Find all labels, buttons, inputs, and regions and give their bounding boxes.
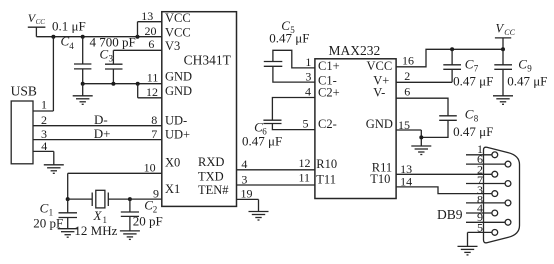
svg-text:6: 6 bbox=[404, 84, 410, 98]
svg-text:C: C bbox=[61, 34, 70, 49]
capacitor C4 0.1uF bbox=[52, 18, 91, 83]
svg-text:T10: T10 bbox=[370, 172, 390, 186]
wire X1 pin9 bbox=[130, 198, 162, 200]
wire TEN# pin19 to ground bbox=[237, 199, 259, 211]
svg-text:UD+: UD+ bbox=[165, 127, 190, 141]
DB9 pin circles right column bbox=[505, 161, 511, 225]
wire TXD pin3 to MAX232 pin11 bbox=[237, 184, 315, 186]
svg-text:4: 4 bbox=[41, 139, 47, 153]
svg-text:1: 1 bbox=[305, 55, 311, 69]
svg-text:CC: CC bbox=[504, 28, 515, 37]
svg-text:8: 8 bbox=[151, 113, 157, 127]
svg-text:VCC: VCC bbox=[165, 26, 191, 40]
USB connector J1 bbox=[11, 83, 37, 164]
capacitor C5 0.47uF bbox=[264, 18, 315, 82]
svg-text:GND: GND bbox=[165, 70, 192, 84]
svg-text:6: 6 bbox=[148, 37, 154, 51]
wire D- USB pin2 to chip pin 8 bbox=[33, 112, 162, 127]
wire pin 13 branch bbox=[138, 22, 162, 37]
wire X0 pin10 bbox=[68, 173, 162, 199]
svg-text:CC: CC bbox=[36, 18, 46, 26]
svg-text:12: 12 bbox=[146, 85, 158, 99]
svg-text:4: 4 bbox=[305, 85, 311, 99]
ground under C4 bbox=[73, 84, 93, 105]
svg-text:2: 2 bbox=[404, 69, 410, 83]
svg-text:11: 11 bbox=[299, 171, 311, 185]
svg-text:14: 14 bbox=[400, 174, 412, 188]
svg-text:2: 2 bbox=[41, 113, 47, 127]
svg-text:T11: T11 bbox=[316, 172, 336, 186]
svg-text:R10: R10 bbox=[316, 157, 337, 171]
svg-text:0.1 μF: 0.1 μF bbox=[52, 18, 86, 33]
DB9 pin stubs left column bbox=[466, 155, 492, 233]
svg-text:0.47 μF: 0.47 μF bbox=[269, 31, 309, 46]
svg-text:C: C bbox=[465, 56, 474, 71]
wire RXD pin4 to MAX232 pin12 bbox=[237, 169, 315, 171]
CH341T pin numbers right bbox=[241, 157, 253, 201]
CH341T left pin labels bbox=[165, 11, 192, 196]
svg-text:12 MHz: 12 MHz bbox=[74, 223, 117, 238]
svg-text:D+: D+ bbox=[94, 126, 111, 141]
svg-text:7: 7 bbox=[151, 127, 157, 141]
ground TEN# bbox=[249, 212, 269, 221]
svg-text:TEN#: TEN# bbox=[198, 183, 229, 197]
ground under C1 bbox=[58, 229, 78, 238]
svg-text:X0: X0 bbox=[165, 156, 180, 170]
ground under C2 bbox=[120, 231, 140, 240]
node junction C4 on VCC rail bbox=[81, 35, 85, 39]
node crystal right bbox=[128, 197, 132, 201]
wire R11 pin13 to DB9 pin2 bbox=[396, 173, 492, 175]
svg-text:11: 11 bbox=[147, 71, 159, 85]
capacitor C7 0.47uF bbox=[443, 49, 493, 88]
MAX232 pin numbers right bbox=[398, 54, 414, 189]
svg-text:9: 9 bbox=[527, 63, 532, 73]
svg-text:C2-: C2- bbox=[318, 117, 337, 131]
node crystal left bbox=[66, 197, 70, 201]
node junction C9 on VCC rail bbox=[501, 47, 505, 51]
DB9 pin numbers bbox=[477, 142, 483, 235]
svg-text:X: X bbox=[93, 208, 103, 223]
svg-text:C: C bbox=[518, 56, 527, 71]
svg-text:4 700 pF: 4 700 pF bbox=[90, 34, 136, 49]
svg-text:V3: V3 bbox=[165, 39, 180, 53]
svg-text:C1+: C1+ bbox=[318, 59, 340, 73]
svg-text:5: 5 bbox=[477, 221, 483, 235]
svg-text:0.47 μF: 0.47 μF bbox=[453, 124, 493, 139]
capacitor C1 20pF bbox=[33, 199, 77, 231]
wire VCC pin16 to rail bbox=[396, 49, 503, 67]
MAX232 right pin labels bbox=[366, 59, 393, 186]
power VCC left bbox=[28, 11, 46, 37]
svg-text:8: 8 bbox=[474, 114, 479, 124]
CH341T right pin labels bbox=[198, 155, 229, 197]
svg-text:0.47 μF: 0.47 μF bbox=[453, 73, 493, 88]
wire USB pin1 to VCC rail bbox=[33, 37, 53, 112]
svg-text:3: 3 bbox=[305, 70, 311, 84]
MAX232 pin numbers left bbox=[299, 55, 312, 185]
wire D+ USB pin3 to chip pin 7 bbox=[33, 126, 162, 141]
svg-text:RXD: RXD bbox=[198, 155, 224, 169]
IC U1 CH341T bbox=[162, 12, 237, 207]
capacitor C8 0.47uF with V- pin6 bbox=[396, 98, 493, 139]
capacitor C2 20pF bbox=[121, 197, 163, 231]
wire ground rail to pin 11 bbox=[83, 83, 162, 85]
node junction USB pin1 on VCC rail bbox=[51, 35, 55, 39]
svg-text:VCC: VCC bbox=[165, 11, 191, 25]
DB9 pin circles left column bbox=[492, 152, 498, 235]
svg-text:0.47 μF: 0.47 μF bbox=[507, 73, 547, 88]
svg-text:7: 7 bbox=[474, 63, 479, 73]
svg-text:C: C bbox=[465, 107, 474, 122]
node junction pin12 branch bbox=[136, 82, 140, 86]
wire USB pin4 to ground bbox=[33, 139, 54, 165]
svg-text:GND: GND bbox=[165, 84, 192, 98]
ground USB pin4 bbox=[44, 165, 64, 174]
svg-text:X1: X1 bbox=[165, 182, 180, 196]
svg-text:TXD: TXD bbox=[198, 169, 224, 183]
MAX232 left pin labels bbox=[316, 59, 339, 186]
svg-text:C: C bbox=[100, 46, 109, 61]
svg-text:VCC: VCC bbox=[367, 59, 393, 73]
ground under C9 bbox=[493, 96, 513, 105]
wire V+ pin2 to C7 bbox=[396, 81, 452, 83]
wire VCC rail to pin 20 bbox=[36, 36, 161, 38]
node junction pin15 C8 ground bbox=[419, 135, 423, 139]
svg-text:3: 3 bbox=[109, 53, 114, 63]
svg-text:16: 16 bbox=[402, 54, 414, 68]
svg-text:19: 19 bbox=[241, 187, 253, 201]
ground DB9 pin5 bbox=[458, 246, 478, 255]
svg-text:C: C bbox=[40, 200, 49, 215]
wire DB9 pin5 to ground bbox=[467, 232, 469, 246]
node junction pin13 branch on VCC rail bbox=[136, 35, 140, 39]
svg-text:CH341T: CH341T bbox=[184, 52, 232, 67]
IC U2 MAX232 bbox=[315, 43, 396, 199]
svg-text:5: 5 bbox=[303, 117, 309, 131]
crystal X1 12MHz bbox=[68, 190, 130, 238]
wire pin 12 branch bbox=[138, 84, 162, 98]
node junction C3 ground bbox=[111, 82, 115, 86]
DB9 pin stubs right column bbox=[466, 164, 505, 222]
svg-text:V-: V- bbox=[373, 85, 385, 99]
svg-text:DB9: DB9 bbox=[437, 207, 463, 222]
svg-text:13: 13 bbox=[141, 9, 153, 23]
wire T10 pin14 to DB9 pin3 bbox=[396, 187, 492, 194]
CH341T pin numbers left bbox=[141, 9, 159, 200]
capacitor C9 0.47uF bbox=[494, 49, 547, 96]
power VCC right bbox=[495, 22, 516, 50]
svg-text:4: 4 bbox=[69, 41, 74, 51]
wire pin 6 V3 bbox=[113, 49, 161, 51]
svg-text:9: 9 bbox=[153, 186, 159, 200]
node junction C7 on VCC rail bbox=[450, 47, 454, 51]
capacitor C3 4700pF bbox=[90, 34, 136, 83]
svg-text:GND: GND bbox=[366, 117, 393, 131]
svg-text:20 pF: 20 pF bbox=[133, 213, 163, 228]
svg-text:12: 12 bbox=[299, 156, 311, 170]
ground MAX232 pin15 bbox=[411, 146, 431, 155]
svg-text:D-: D- bbox=[94, 112, 108, 127]
svg-text:3: 3 bbox=[241, 172, 247, 186]
svg-text:10: 10 bbox=[144, 161, 156, 175]
connector DB9 shell bbox=[484, 147, 520, 243]
svg-text:MAX232: MAX232 bbox=[329, 43, 381, 58]
svg-text:UD-: UD- bbox=[165, 114, 187, 128]
capacitor C6 0.47uF bbox=[242, 98, 315, 149]
svg-text:1: 1 bbox=[41, 98, 47, 112]
svg-text:C2+: C2+ bbox=[318, 85, 340, 99]
svg-text:USB: USB bbox=[11, 83, 37, 98]
svg-text:4: 4 bbox=[241, 157, 247, 171]
svg-text:20: 20 bbox=[145, 24, 157, 38]
svg-text:0.47 μF: 0.47 μF bbox=[242, 133, 282, 148]
wire GND pin15 bbox=[396, 130, 421, 146]
node junction C4 ground bbox=[81, 82, 85, 86]
